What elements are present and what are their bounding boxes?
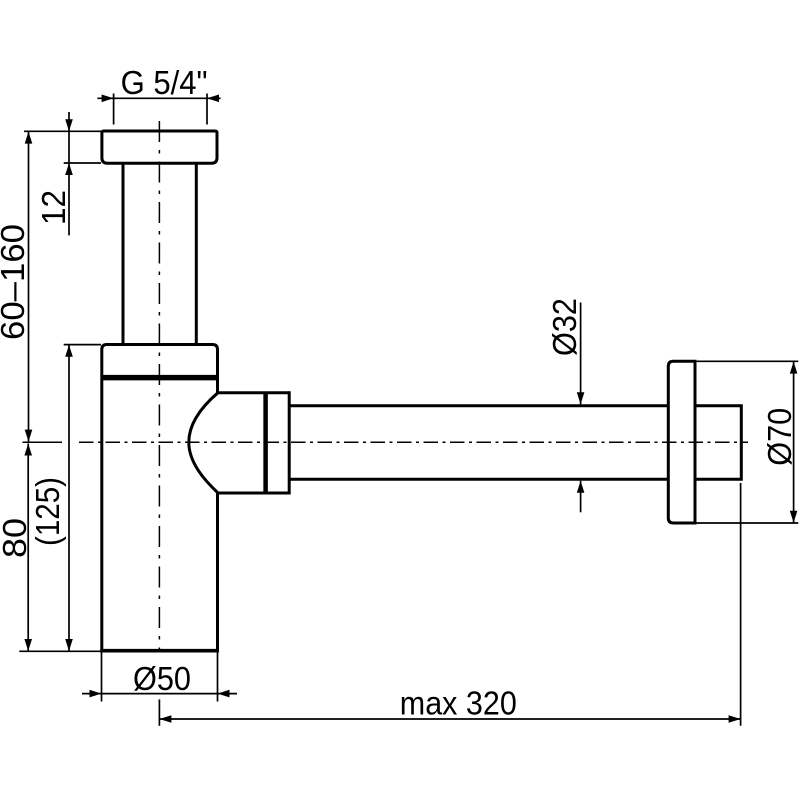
- bottom extension line: [19, 650, 101, 652]
- svg-text:(125): (125): [29, 477, 66, 546]
- svg-text:Ø50: Ø50: [133, 660, 191, 697]
- dimension 80: [27, 444, 29, 652]
- dimension G 5/4": [97, 94, 220, 125]
- dimension D70: [695, 361, 798, 523]
- svg-text:max 320: max 320: [400, 685, 517, 722]
- vertical centerline: [158, 121, 160, 651]
- pipe nut thick edge: [263, 393, 268, 493]
- svg-text:Ø32: Ø32: [546, 298, 583, 356]
- body (siphon cup): [102, 345, 218, 651]
- dimension D32: [580, 303, 582, 513]
- joint band (thick): [102, 375, 218, 381]
- horizontal centerline: [23, 441, 63, 443]
- dimension 60-160: [28, 132, 30, 442]
- svg-text:60–160: 60–160: [0, 224, 31, 340]
- svg-text:Ø70: Ø70: [761, 408, 798, 466]
- wall flange (rosette): [668, 361, 695, 523]
- nut top extension line: [64, 344, 101, 346]
- elbow (olive): [189, 393, 289, 493]
- dimension 12: [24, 112, 101, 235]
- body bottom edge: [100, 649, 219, 653]
- inlet pipe: [122, 163, 125, 345]
- dimension max 320: [159, 483, 740, 726]
- pipe nut right edge: [288, 391, 291, 494]
- top flange: [102, 131, 217, 163]
- wall pipe stub: [695, 406, 741, 480]
- svg-text:12: 12: [35, 190, 72, 225]
- svg-text:G 5/4": G 5/4": [121, 64, 208, 101]
- dimension D50: [82, 652, 237, 701]
- outlet pipe: [289, 404, 669, 407]
- dimension (125): [68, 345, 70, 651]
